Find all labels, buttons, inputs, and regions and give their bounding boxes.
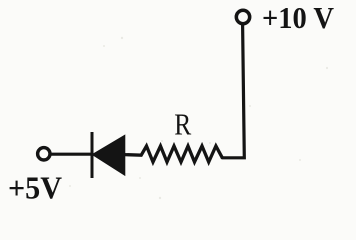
svg-text:R: R: [174, 107, 191, 142]
terminal +10V: [236, 10, 249, 23]
resistor R: [124, 146, 222, 162]
svg-text:+5V: +5V: [8, 170, 62, 206]
wire vertical: [222, 25, 244, 158]
scan speckles (decorative): [69, 37, 328, 199]
svg-text:+10 V: +10 V: [262, 0, 335, 35]
diode D1 triangle: [92, 135, 125, 175]
diode D1 cathode bar: [91, 132, 94, 178]
wire left: [50, 153, 93, 156]
terminal +5V: [38, 148, 50, 160]
